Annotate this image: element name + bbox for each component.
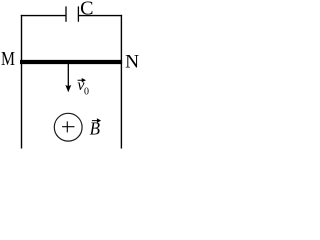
- wire top right segment: [79, 15, 123, 17]
- plus sign horizontal: [62, 126, 74, 128]
- capacitor C1 right plate: [77, 6, 79, 21]
- svg-text:M: M: [1, 48, 15, 70]
- svg-text:C: C: [80, 0, 93, 20]
- label B vector arrow: [92, 119, 100, 122]
- plus sign vertical: [66, 121, 68, 132]
- wire right vertical: [120, 15, 122, 149]
- conducting rod MN: [20, 60, 122, 64]
- velocity arrowhead: [65, 85, 71, 92]
- magnetic field region circle: [54, 113, 82, 141]
- wire top left segment: [21, 15, 66, 17]
- velocity arrow shaft: [67, 64, 69, 87]
- label v0 vector arrow: [78, 79, 85, 82]
- capacitor C1 left plate: [65, 6, 67, 21]
- svg-text:N: N: [125, 52, 139, 73]
- svg-text:0: 0: [84, 86, 89, 98]
- wire left vertical: [21, 15, 23, 149]
- svg-text:B: B: [90, 119, 101, 139]
